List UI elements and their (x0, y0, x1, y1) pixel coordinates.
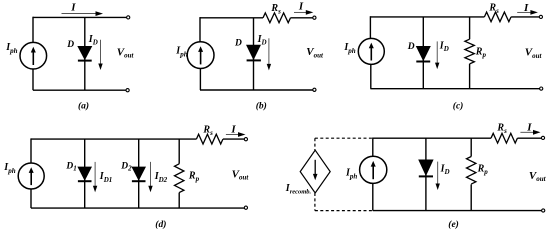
wire (d) left vertical lower (30, 189, 32, 208)
wire (e) dashed left vertical lower (314, 193, 316, 211)
wire (c) top rail left (370, 16, 484, 18)
wire (e) left vertical lower (372, 183, 374, 210)
arrow ID1 (d) (93, 162, 97, 192)
wire (d) Rp branch upper (178, 139, 180, 164)
svg-text:(c): (c) (453, 101, 464, 112)
svg-text:(d): (d) (155, 219, 166, 230)
svg-text:I: I (298, 1, 304, 13)
resistor Rs (c) (484, 12, 511, 22)
wire (d) Rp branch lower (178, 193, 180, 209)
wire (c) bottom rail (370, 88, 539, 90)
svg-text:I: I (230, 123, 236, 135)
terminal (a) top-right (127, 16, 130, 19)
wire (c) Rp branch upper (469, 17, 471, 39)
current source U(c) Iph circle (358, 38, 384, 64)
arrow ID2 (d) (148, 162, 152, 192)
wire (e) dashed bottom link (315, 210, 373, 212)
svg-text:(a): (a) (78, 100, 89, 111)
resistor Rs (b) (263, 13, 290, 23)
arrow ID (c) (435, 41, 439, 69)
wire (b) bottom rail (200, 89, 313, 91)
svg-text:D: D (66, 40, 74, 50)
terminal (e) bottom-right (542, 209, 545, 212)
wire (b) top rail right (291, 17, 313, 19)
wire (e) dashed top link (315, 137, 373, 139)
wire (b) middle branch (253, 18, 255, 90)
resistor Rp (c) (465, 39, 474, 64)
wire (c) middle branch (422, 17, 424, 89)
wire (d) diode-2 branch (138, 139, 140, 208)
arrow ID (a) (98, 40, 102, 70)
wire (e) bottom rail (373, 210, 542, 212)
wire (d) bottom rail (31, 207, 244, 209)
terminal (d) top-right (244, 138, 247, 141)
wire (b) left vertical lower (199, 69, 201, 91)
terminal (c) top-right (539, 15, 542, 18)
diode D1 (d) (77, 167, 92, 182)
wire (d) top rail right (223, 138, 244, 140)
wire (e) left vertical upper (372, 138, 374, 157)
wire (e) top rail right (517, 137, 541, 139)
svg-text:I: I (70, 2, 76, 14)
wire (e) Rp branch lower (470, 184, 472, 210)
diode D (c) (416, 46, 431, 62)
terminal (d) bottom-right (244, 206, 247, 209)
current source U(d) Iph circle (18, 163, 44, 189)
diode D (e) (418, 160, 433, 177)
wire (a) left vertical lower (32, 69, 34, 90)
diode D (b) (246, 45, 261, 61)
dependent source Irecomb diamond (e) (300, 150, 330, 193)
svg-text:(e): (e) (448, 219, 459, 230)
diode D2 (d) (131, 167, 146, 182)
resistor Rp (d) (175, 164, 184, 193)
wire (e) diode branch (425, 138, 427, 210)
wire (a) top rail (33, 16, 127, 18)
svg-text:I: I (526, 121, 532, 133)
arrow ID (e) (436, 162, 440, 190)
wire (d) left vertical upper (30, 138, 32, 163)
resistor Rs (e) (491, 133, 517, 143)
arrow I (b) (294, 10, 313, 15)
arrow I (d) (226, 132, 246, 137)
current source U(b) Iph circle (187, 42, 214, 69)
terminal (b) top-right (313, 16, 316, 19)
resistor Rp (e) (467, 157, 476, 185)
arrow I (c) (517, 10, 538, 15)
svg-text:D: D (407, 42, 415, 52)
wire (a) bottom rail (33, 89, 126, 91)
terminal (a) bottom-right (126, 89, 129, 92)
terminal (b) bottom-right (313, 88, 316, 91)
current source U(a) Iph circle (20, 42, 47, 69)
wire (e) dashed left vertical upper (314, 138, 316, 150)
wire (b) left vertical upper (199, 17, 201, 42)
wire (e) top rail left (373, 137, 491, 139)
svg-text:(b): (b) (256, 100, 267, 111)
wire (c) top rail right (511, 16, 539, 18)
terminal (c) bottom-right (540, 87, 543, 90)
arrow I (a) (62, 11, 104, 16)
wire (b) top rail left (200, 17, 263, 19)
wire (d) diode-1 branch (84, 139, 86, 208)
current source U(e) Iph circle (360, 156, 387, 183)
arrow I (e) (520, 130, 540, 135)
diode D (a) (77, 46, 92, 61)
terminal (e) top-right (541, 136, 544, 139)
wire (c) left vertical upper (369, 16, 371, 38)
wire (c) Rp branch lower (469, 64, 471, 89)
wire (d) top rail left (31, 138, 196, 140)
arrow ID (b) (267, 38, 271, 70)
wire (a) middle branch (84, 17, 86, 90)
wire (e) Rp branch upper (470, 138, 472, 156)
svg-text:D: D (234, 38, 242, 48)
wire (c) left vertical lower (370, 64, 372, 88)
wire (a) left vertical upper (32, 17, 34, 43)
resistor Rs (d) (196, 134, 222, 144)
